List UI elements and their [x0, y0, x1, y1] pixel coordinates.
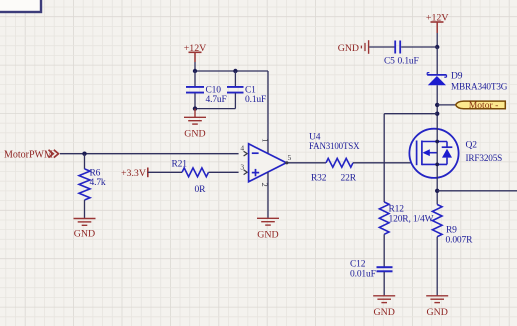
junction at C10 bottom: [193, 106, 197, 110]
label R21: [172, 159, 188, 169]
capacitor C1: [227, 71, 244, 109]
label C10: [206, 86, 222, 96]
junction C5 tap: [435, 45, 439, 49]
junction at C1 top: [233, 69, 237, 73]
wire sense to right edge: [437, 190, 517, 192]
wire op-amp GND pin: [267, 172, 269, 218]
value 120R 1/4W: [389, 215, 434, 225]
svg-text:MBRA340T3G: MBRA340T3G: [451, 81, 508, 91]
port MotorPWM: [4, 149, 59, 160]
junction motor tap: [435, 103, 439, 107]
ground under R6: [74, 219, 96, 240]
svg-text:D9: D9: [451, 72, 463, 82]
svg-text:R9: R9: [446, 225, 457, 235]
junction at R6 top: [82, 152, 86, 156]
svg-text:4.7k: 4.7k: [90, 178, 106, 188]
wire R32 to gate: [353, 162, 417, 164]
svg-text:R6: R6: [90, 168, 101, 178]
svg-text:GND: GND: [257, 229, 278, 240]
resistor R32: [326, 158, 353, 167]
ground under C10: [184, 109, 206, 140]
wire C5 to rail: [401, 46, 437, 48]
wire +12V stem to rail: [194, 62, 196, 71]
svg-text:GND: GND: [373, 307, 394, 318]
svg-text:0R: 0R: [195, 185, 207, 195]
power port +12V (right): [426, 13, 449, 34]
svg-text:120R, 1/4W: 120R, 1/4W: [389, 215, 434, 225]
svg-text:GND: GND: [74, 228, 95, 239]
resistor R12: [379, 202, 389, 267]
svg-text:0.1uF: 0.1uF: [245, 95, 266, 105]
svg-text:GND: GND: [338, 43, 359, 54]
svg-text:3: 3: [240, 163, 244, 172]
sheet symbol corner: [0, 0, 41, 12]
label C12: [350, 259, 366, 269]
junction at C10 top: [193, 69, 197, 73]
label R12: [389, 205, 405, 215]
resistor R6: [79, 154, 90, 219]
value 4.7uF: [206, 95, 227, 105]
power port +12V (left): [184, 43, 207, 62]
capacitor C12: [377, 267, 393, 296]
wire drain-source through Q2: [436, 129, 438, 178]
value 0.1uF (C1): [245, 95, 266, 105]
power port GND (C5): [338, 40, 369, 54]
label R9: [446, 225, 457, 235]
pin number 5: [288, 153, 292, 162]
wire source to R9: [436, 178, 438, 205]
value 0.01uF: [350, 270, 376, 280]
junction Q2 source stub: [435, 163, 439, 167]
label R6: [90, 168, 101, 178]
wire D9 to motor node: [436, 85, 438, 129]
svg-text:0.01uF: 0.01uF: [350, 270, 376, 280]
wire MotorPWM to op-amp: [60, 153, 239, 155]
value 0.1uF (C5): [398, 57, 419, 67]
value 22R: [341, 173, 357, 183]
svg-text:22R: 22R: [341, 173, 357, 183]
value FAN3100TSX: [309, 141, 360, 151]
op-amp U1 body: [249, 144, 287, 182]
junction snubber tap: [435, 112, 439, 116]
svg-text:C1: C1: [245, 86, 256, 96]
wire snubber horizontal: [384, 113, 437, 115]
svg-text:R12: R12: [389, 205, 405, 215]
label R32: [311, 173, 327, 183]
wire op-amp VDD drop: [267, 71, 269, 153]
svg-text:4: 4: [240, 144, 244, 153]
pin number 1: [260, 138, 270, 142]
svg-text:1: 1: [260, 138, 270, 142]
output pin dot: [285, 161, 288, 164]
svg-text:GND: GND: [426, 307, 447, 318]
svg-text:R32: R32: [311, 173, 327, 183]
wire snubber vertical: [383, 114, 385, 202]
resistor R21: [182, 168, 209, 177]
resistor R9: [432, 205, 442, 296]
junction Q2 drain stub: [435, 140, 439, 144]
wire R21 to op-amp: [209, 171, 239, 173]
transistor Q2 body: [409, 129, 458, 178]
label U4: [309, 133, 321, 143]
ground under R9: [426, 296, 448, 318]
svg-text:+3.3V: +3.3V: [121, 168, 147, 179]
wire +3.3V to R21: [148, 171, 182, 173]
svg-text:Motor -: Motor -: [469, 100, 499, 111]
ground under C12: [373, 296, 395, 318]
wire op-amp out to R32: [287, 162, 326, 164]
svg-text:R21: R21: [172, 159, 188, 169]
junction source sense: [435, 189, 439, 193]
svg-text:C10: C10: [206, 86, 222, 96]
value MBRA340T3G: [451, 81, 508, 91]
label C5: [384, 57, 395, 67]
value 4.7k: [90, 178, 106, 188]
wire +12V to drain rail: [436, 33, 438, 47]
ground under op-amp: [257, 218, 279, 240]
label C1: [245, 86, 256, 96]
pin number 3: [240, 163, 244, 172]
svg-text:0.007R: 0.007R: [446, 235, 474, 245]
svg-text:Q2: Q2: [466, 140, 478, 150]
svg-text:C12: C12: [350, 259, 366, 269]
wire top rail C1 to op-amp branch: [235, 70, 268, 72]
wire GND to C5: [369, 46, 394, 48]
wire C1 bottom return: [195, 108, 235, 110]
svg-text:IRF3205S: IRF3205S: [466, 153, 503, 163]
power port +3.3V: [121, 168, 148, 179]
label Q2: [466, 140, 478, 150]
wire top rail C10 to C1: [195, 70, 235, 72]
pin number 2: [260, 182, 270, 186]
svg-text:4.7uF: 4.7uF: [206, 95, 227, 105]
port Motor -: [456, 100, 506, 111]
capacitor C5: [395, 41, 400, 54]
diode D9: [427, 73, 446, 86]
svg-text:C5: C5: [384, 57, 395, 67]
svg-text:MotorPWM: MotorPWM: [4, 149, 53, 160]
svg-text:FAN3100TSX: FAN3100TSX: [309, 141, 360, 151]
svg-text:5: 5: [288, 153, 292, 162]
wire rail to D9: [436, 47, 438, 75]
pin 4 inverting input arrow: [244, 151, 248, 156]
pin number 4: [240, 144, 244, 153]
value 0R: [195, 185, 207, 195]
svg-text:0.1uF: 0.1uF: [398, 57, 419, 67]
wire to Motor- port: [437, 104, 456, 106]
value IRF3205S: [466, 153, 503, 163]
pin 3 non-inverting input arrow: [244, 170, 248, 175]
label D9: [451, 72, 463, 82]
svg-text:GND: GND: [184, 128, 205, 139]
value 0.007R: [446, 235, 474, 245]
capacitor C10: [186, 71, 204, 109]
